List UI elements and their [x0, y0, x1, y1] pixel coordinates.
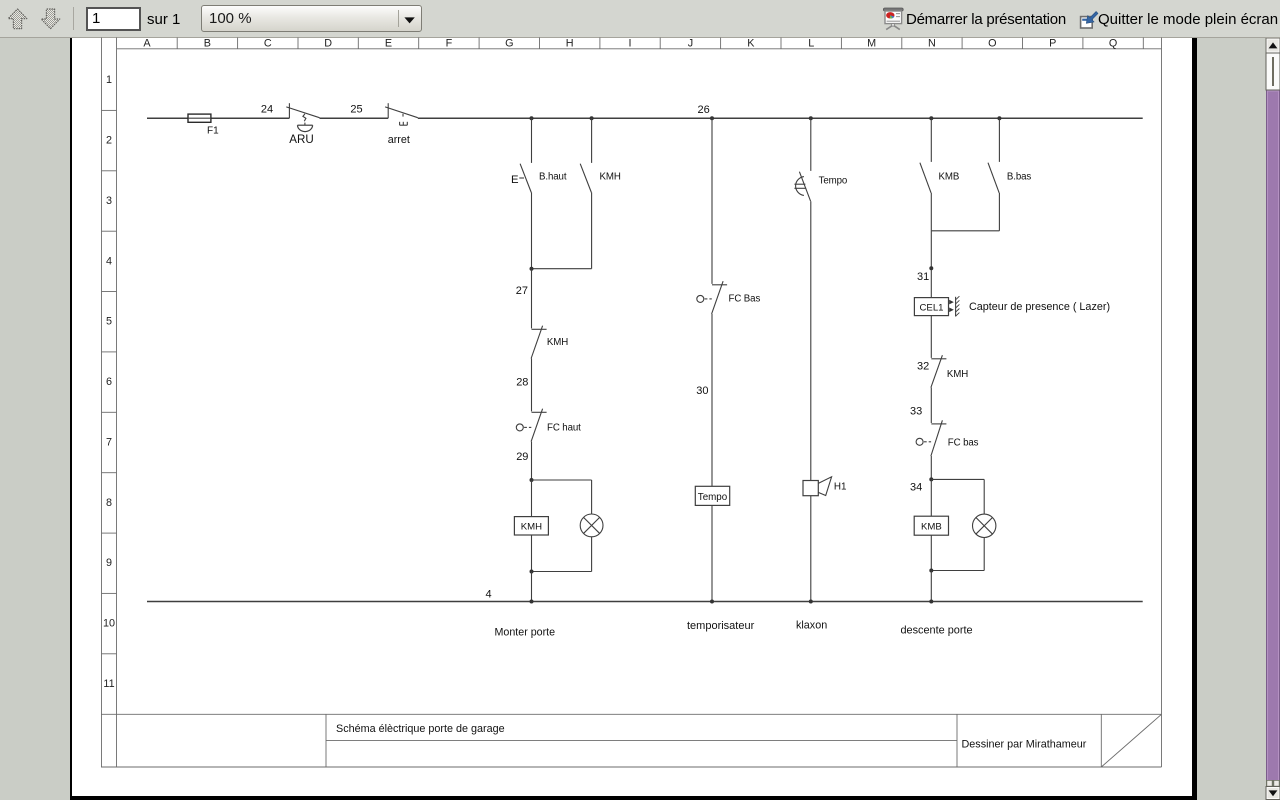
svg-text:A: A	[143, 37, 151, 49]
svg-text:30: 30	[696, 385, 708, 397]
svg-text:Capteur de presence ( Lazer): Capteur de presence ( Lazer)	[969, 301, 1110, 313]
svg-text:33: 33	[910, 406, 922, 418]
svg-text:CEL1: CEL1	[920, 303, 944, 314]
svg-text:2: 2	[106, 135, 112, 147]
svg-text:9: 9	[106, 557, 112, 569]
svg-text:8: 8	[106, 497, 112, 509]
svg-text:FC haut: FC haut	[547, 422, 581, 433]
svg-text:27: 27	[516, 285, 528, 297]
svg-text:L: L	[808, 37, 814, 49]
svg-text:descente porte: descente porte	[901, 625, 973, 637]
svg-text:10: 10	[103, 618, 115, 630]
svg-text:25: 25	[350, 103, 362, 115]
svg-text:28: 28	[516, 376, 528, 388]
svg-text:KMH: KMH	[600, 172, 621, 183]
svg-text:Tempo: Tempo	[698, 492, 728, 503]
svg-text:H1: H1	[834, 482, 847, 493]
svg-text:34: 34	[910, 481, 922, 493]
svg-text:ARU: ARU	[289, 133, 313, 146]
svg-text:KMB: KMB	[939, 172, 960, 183]
svg-text:N: N	[928, 37, 936, 49]
svg-text:B.haut: B.haut	[539, 172, 567, 183]
svg-text:6: 6	[106, 376, 112, 388]
svg-text:24: 24	[261, 103, 273, 115]
svg-text:Schéma élèctrique porte de gar: Schéma élèctrique porte de garage	[336, 723, 505, 735]
svg-text:Monter porte: Monter porte	[495, 626, 556, 638]
svg-text:E: E	[511, 174, 519, 186]
svg-text:O: O	[988, 37, 996, 49]
svg-text:FC Bas: FC Bas	[729, 294, 761, 305]
svg-text:1: 1	[106, 74, 112, 86]
svg-text:I: I	[629, 37, 632, 49]
svg-text:J: J	[688, 37, 693, 49]
svg-text:B.bas: B.bas	[1007, 172, 1032, 183]
svg-text:11: 11	[103, 678, 114, 690]
svg-text:4: 4	[106, 255, 112, 267]
svg-text:5: 5	[106, 316, 112, 328]
svg-text:3: 3	[106, 195, 112, 207]
svg-text:D: D	[324, 37, 332, 49]
svg-text:F1: F1	[207, 126, 219, 137]
svg-text:B: B	[204, 37, 211, 49]
svg-text:29: 29	[516, 451, 528, 463]
svg-text:G: G	[505, 37, 513, 49]
svg-text:Q: Q	[1109, 37, 1117, 49]
svg-text:H: H	[566, 37, 574, 49]
svg-text:C: C	[264, 37, 272, 49]
svg-text:32: 32	[917, 360, 929, 372]
svg-text:7: 7	[106, 437, 112, 449]
svg-text:Dessiner par Mirathameur: Dessiner par Mirathameur	[962, 738, 1087, 750]
svg-text:Tempo: Tempo	[819, 176, 848, 187]
svg-text:E: E	[385, 37, 392, 49]
svg-text:F: F	[446, 37, 453, 49]
svg-text:FC bas: FC bas	[948, 438, 979, 449]
svg-text:KMB: KMB	[921, 522, 942, 533]
svg-text:temporisateur: temporisateur	[687, 620, 755, 632]
svg-text:klaxon: klaxon	[796, 619, 827, 631]
svg-text:K: K	[747, 37, 755, 49]
svg-text:4: 4	[485, 589, 491, 601]
svg-text:KMH: KMH	[521, 522, 542, 533]
svg-text:KMH: KMH	[547, 337, 568, 348]
svg-text:KMH: KMH	[947, 369, 968, 380]
svg-text:P: P	[1049, 37, 1056, 49]
svg-text:31: 31	[917, 271, 929, 283]
svg-text:arret: arret	[388, 134, 410, 146]
svg-text:26: 26	[698, 104, 710, 116]
svg-text:M: M	[867, 37, 876, 49]
